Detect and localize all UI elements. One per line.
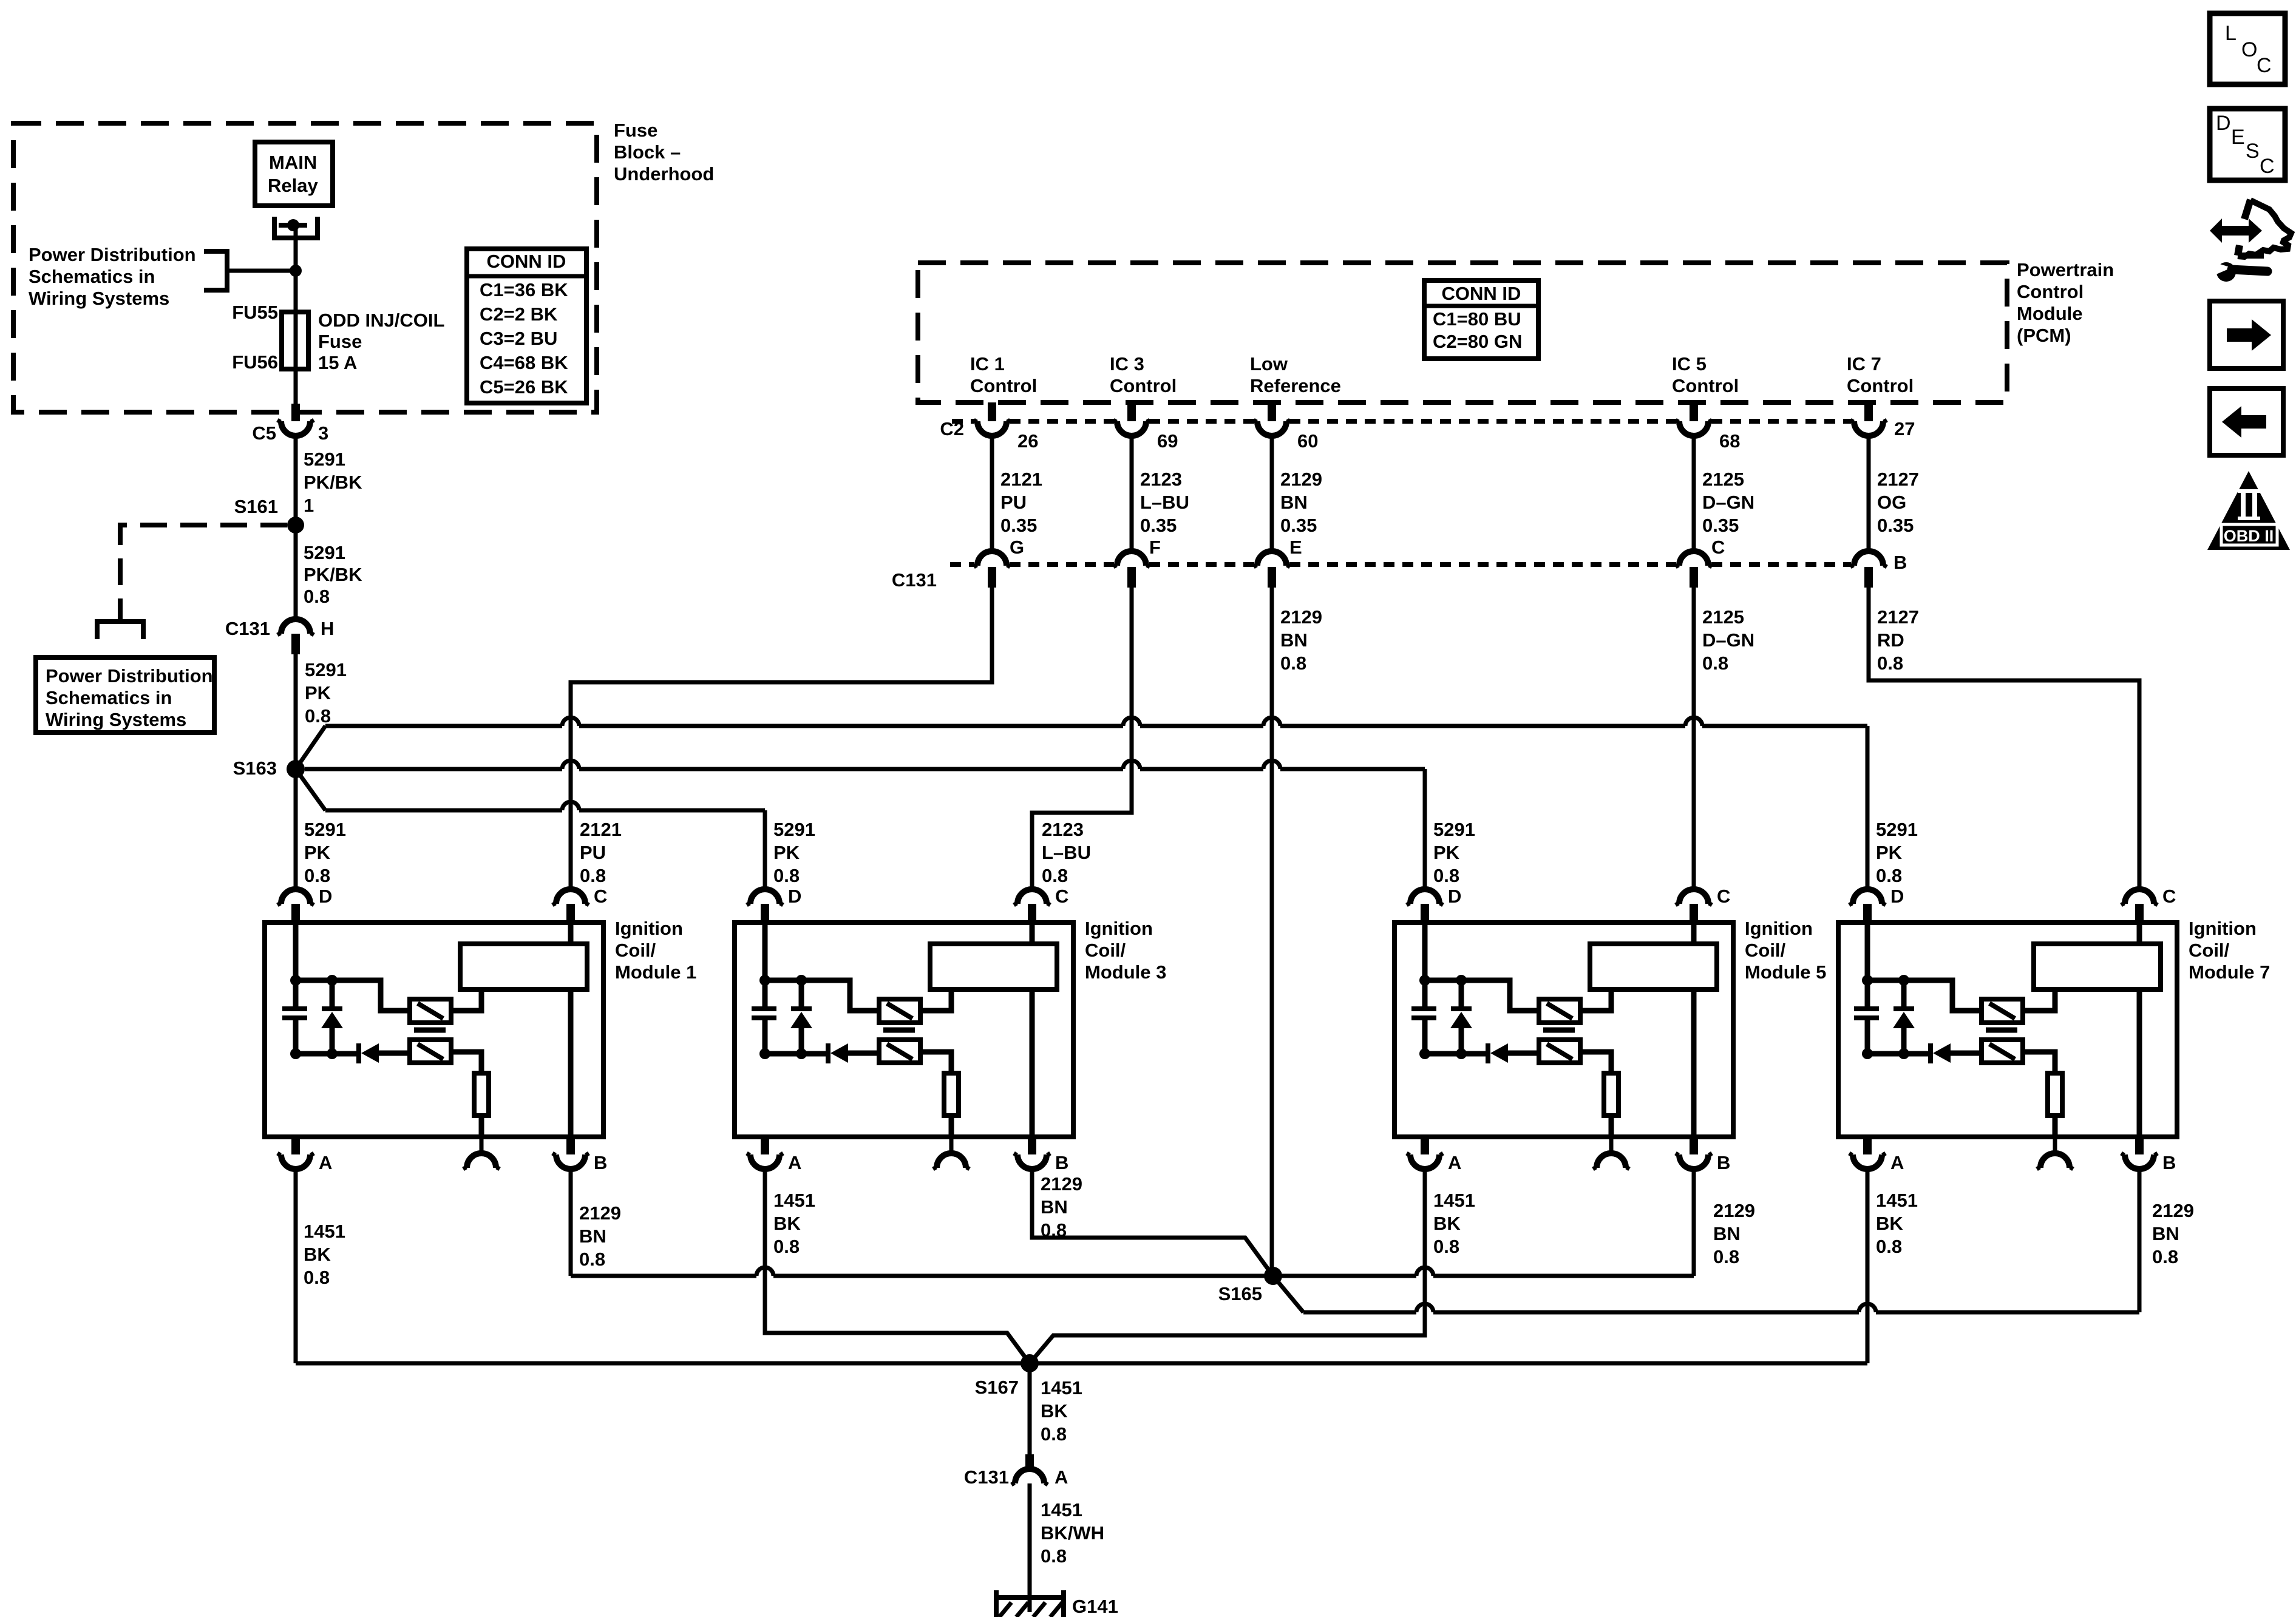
PCM pin stub 68 (1690, 402, 1698, 421)
splice S167 (1021, 1354, 1039, 1372)
module 3 pin D connector (750, 889, 779, 904)
svg-text:Control: Control (1672, 375, 1739, 396)
svg-text:0.35: 0.35 (1877, 515, 1914, 536)
svg-text:IC 3: IC 3 (1110, 353, 1144, 375)
wire 5291 PK 0.8 (294, 654, 298, 769)
svg-text:BK: BK (304, 1244, 331, 1265)
junction dot at power feed (290, 265, 302, 277)
svg-text:PK: PK (304, 842, 331, 863)
svg-text:BK: BK (1876, 1213, 1903, 1234)
connector C131 pin B (1854, 551, 1883, 566)
svg-text:5291: 5291 (305, 659, 347, 680)
CONN ID table (fuse block) (467, 249, 586, 403)
svg-text:D–GN: D–GN (1702, 492, 1754, 513)
svg-text:0.8: 0.8 (1702, 653, 1728, 674)
module 1 coil drive wire (451, 989, 481, 1011)
module 7 pin C internal wire (2137, 925, 2142, 944)
module 5 pin A connector (1421, 1134, 1429, 1154)
icon OBD II triangle (2207, 471, 2290, 550)
wire fan to module 7 D (5291 PK) (296, 726, 325, 769)
svg-text:FU55: FU55 (232, 302, 278, 323)
svg-text:C: C (1055, 886, 1068, 907)
svg-text:0.8: 0.8 (579, 1249, 605, 1270)
module 1 core bar (414, 1028, 446, 1033)
svg-text:C2: C2 (940, 418, 964, 439)
svg-text:Ignition: Ignition (615, 918, 683, 939)
PCM pin stub 27 (1864, 402, 1873, 421)
svg-text:Fuse: Fuse (614, 120, 657, 141)
svg-text:5291: 5291 (304, 542, 345, 563)
connector C2 pin 26 (977, 421, 1007, 436)
svg-text:A: A (1055, 1466, 1068, 1488)
svg-text:C: C (2260, 155, 2275, 178)
module 7 internal primary feed wire (1865, 923, 1870, 1009)
module 5 coil drive wire (1580, 989, 1611, 1011)
svg-text:5291: 5291 (1876, 819, 1918, 840)
module 3 sense wire to resistor (920, 1052, 951, 1073)
svg-text:Ignition: Ignition (2189, 918, 2257, 939)
ignition coil module 1 box (265, 923, 603, 1137)
svg-text:0.35: 0.35 (1000, 515, 1037, 536)
svg-text:68: 68 (1719, 430, 1740, 452)
svg-text:0.8: 0.8 (1280, 653, 1306, 674)
connector C2 pin 60 (1257, 421, 1286, 436)
svg-text:IC 5: IC 5 (1672, 353, 1707, 375)
module 7 capacitor (1854, 1006, 1879, 1011)
svg-text:MAIN: MAIN (269, 152, 317, 173)
svg-text:PK: PK (1876, 842, 1903, 863)
svg-text:S165: S165 (1218, 1283, 1262, 1304)
CONN ID table (PCM) (1424, 280, 1538, 359)
svg-text:BN: BN (579, 1225, 606, 1247)
module 1 pin C connector (556, 889, 585, 904)
module 1 driver box lower (410, 1040, 451, 1063)
module 5 ignition coil winding (1590, 944, 1717, 989)
svg-text:D: D (319, 886, 332, 907)
svg-text:0.8: 0.8 (2152, 1246, 2178, 1267)
svg-text:Relay: Relay (268, 175, 318, 196)
svg-text:Module 5: Module 5 (1745, 961, 1826, 983)
svg-text:2129: 2129 (579, 1202, 621, 1224)
module 7 sense wire to resistor (2023, 1052, 2055, 1073)
module 7 pin D connector (1853, 889, 1882, 904)
svg-text:1451: 1451 (1041, 1377, 1082, 1398)
module 5 zener diode (1459, 980, 1464, 1009)
svg-text:Power Distribution: Power Distribution (46, 665, 213, 686)
wire 2129 BN 0.8 S165 to module 5 B (1273, 1274, 1416, 1278)
module 3 pin B connector (1028, 1134, 1036, 1154)
wire 2125 D-GN 0.8 to module 5 pin C (1692, 588, 1696, 889)
svg-text:BN: BN (1713, 1223, 1741, 1244)
module 1 pin D connector (281, 889, 310, 904)
wire 1451 BK 0.8 module 1 A to S167 (294, 1169, 298, 1363)
module 3 ignition coil winding (930, 944, 1057, 989)
svg-text:Underhood: Underhood (614, 163, 714, 185)
wire 2129 BN 0.8 module 3 B to S165 (1032, 1169, 1273, 1276)
svg-text:0.8: 0.8 (1433, 865, 1459, 886)
module 7 pin C connector (2125, 889, 2154, 904)
svg-text:L: L (2225, 22, 2237, 45)
svg-text:0.8: 0.8 (1876, 865, 1902, 886)
svg-text:IC 7: IC 7 (1847, 353, 1881, 375)
svg-text:0.8: 0.8 (304, 586, 330, 607)
wire 2121 PU 0.8 to module 1 pin C (571, 588, 992, 889)
svg-text:2129: 2129 (2152, 1200, 2194, 1221)
svg-text:B: B (1717, 1152, 1730, 1173)
svg-text:0.8: 0.8 (1877, 653, 1903, 674)
ground G141 (996, 1590, 1064, 1598)
svg-text:E: E (1289, 537, 1302, 558)
svg-text:BN: BN (1280, 629, 1308, 651)
svg-text:5291: 5291 (773, 819, 815, 840)
svg-text:C: C (2162, 886, 2176, 907)
svg-text:C: C (1711, 537, 1725, 558)
wire 2127 OG 0.35 (1867, 436, 1871, 551)
module 5 pin D connector (1410, 889, 1439, 904)
svg-text:Wiring Systems: Wiring Systems (29, 288, 169, 309)
module 1 node dots (290, 975, 301, 986)
relay contact junction dot (287, 219, 299, 231)
svg-text:A: A (319, 1152, 332, 1173)
main ground bus to S167 (296, 1361, 1867, 1366)
module 3 capacitor (752, 1006, 776, 1011)
svg-text:0.8: 0.8 (1041, 1545, 1067, 1567)
PCM pin stub 26 (988, 402, 996, 421)
connector C2 pin 27 (1854, 421, 1883, 436)
svg-text:B: B (1894, 552, 1907, 573)
svg-text:C131: C131 (964, 1466, 1009, 1488)
wire 2129 BN 0.8 S165 to module 7 B (1273, 1276, 1303, 1312)
svg-text:PK: PK (305, 682, 331, 703)
module 1 capacitor (282, 1006, 307, 1011)
module 7 driver box upper (1982, 999, 2023, 1023)
svg-text:B: B (2162, 1152, 2176, 1173)
wire 2123 L-BU 0.8 to module 3 pin C (1032, 588, 1132, 889)
module 1 pin B connector (566, 1134, 575, 1154)
svg-text:2129: 2129 (1280, 469, 1322, 490)
svg-text:Module 1: Module 1 (615, 961, 696, 983)
svg-text:PU: PU (580, 842, 606, 863)
module 3 resistor (944, 1073, 959, 1116)
svg-text:2123: 2123 (1140, 469, 1182, 490)
connector C131 pin C (1679, 551, 1708, 566)
svg-text:CONN ID: CONN ID (1442, 283, 1521, 304)
svg-text:Coil/: Coil/ (615, 940, 656, 961)
svg-text:0.8: 0.8 (1041, 1423, 1067, 1445)
module 1 pin B internal wire (568, 989, 574, 1134)
svg-text:C3=2 BU: C3=2 BU (480, 328, 557, 349)
module 1 sense wire to resistor (451, 1052, 481, 1073)
svg-text:PU: PU (1000, 492, 1027, 513)
icon diagnostic hand tool (2210, 200, 2291, 282)
svg-text:1: 1 (304, 495, 314, 516)
svg-text:1451: 1451 (304, 1221, 345, 1242)
svg-text:Coil/: Coil/ (1085, 940, 1126, 961)
PCM pin stub 60 (1268, 402, 1276, 421)
module 1 feedback diode (296, 1051, 357, 1057)
module 3 pin C connector (1017, 889, 1047, 904)
module 1 internal primary feed wire (293, 923, 299, 1009)
module 1 driver box upper (410, 999, 451, 1023)
icon back arrow box (2210, 388, 2283, 455)
connector C2 pin 68 (1679, 421, 1708, 436)
svg-text:C: C (594, 886, 607, 907)
svg-text:A: A (1448, 1152, 1461, 1173)
svg-text:Control: Control (970, 375, 1037, 396)
svg-text:5291: 5291 (1433, 819, 1475, 840)
svg-text:D–GN: D–GN (1702, 629, 1754, 651)
wire 5291 PK/BK 0.8 (294, 525, 298, 619)
svg-text:1451: 1451 (1041, 1499, 1082, 1520)
svg-text:FU56: FU56 (232, 351, 278, 373)
module 5 pin B connector (1690, 1134, 1698, 1154)
connector C2 dotted line (952, 419, 974, 424)
svg-text:0.8: 0.8 (580, 865, 606, 886)
svg-text:0.8: 0.8 (773, 1236, 800, 1257)
svg-text:D: D (1448, 886, 1461, 907)
module 3 feedback diode (765, 1051, 826, 1057)
svg-text:0.8: 0.8 (1041, 1219, 1067, 1241)
svg-text:C4=68 BK: C4=68 BK (480, 352, 568, 373)
svg-text:PK: PK (773, 842, 800, 863)
svg-text:Coil/: Coil/ (2189, 940, 2230, 961)
svg-text:BK: BK (1041, 1400, 1068, 1422)
relay contact bar (279, 223, 307, 228)
svg-text:E: E (2231, 126, 2245, 149)
svg-text:2125: 2125 (1702, 606, 1744, 628)
svg-text:3: 3 (318, 422, 328, 444)
module 7 zener diode (1901, 980, 1907, 1009)
svg-text:2123: 2123 (1042, 819, 1084, 840)
svg-text:PK: PK (1433, 842, 1460, 863)
module 1 ignition coil winding (460, 944, 587, 989)
connector C2 pin 69 (1117, 421, 1146, 436)
module 3 pin A connector (761, 1134, 769, 1154)
svg-text:C: C (2257, 54, 2272, 77)
module 5 sense wire to resistor (1580, 1052, 1611, 1073)
wire 2125 D–GN 0.35 (1692, 436, 1696, 551)
svg-text:0.8: 0.8 (1713, 1246, 1739, 1267)
module 1 zener diode (330, 980, 335, 1009)
module 3 driver box lower (879, 1040, 920, 1063)
module 1 pin C internal wire (568, 925, 574, 944)
module 7 pin B connector (2135, 1134, 2144, 1154)
svg-text:F: F (1149, 537, 1161, 558)
module 1 spark output terminal (480, 1137, 484, 1153)
module 7 coil drive wire (2023, 989, 2055, 1011)
wire fan to module 3 D (5291 PK) (296, 769, 325, 810)
module 7 driver box lower (1982, 1040, 2023, 1063)
svg-text:69: 69 (1157, 430, 1178, 452)
svg-text:2127: 2127 (1877, 606, 1919, 628)
svg-text:S: S (2246, 140, 2260, 163)
svg-text:G141: G141 (1072, 1596, 1118, 1617)
bracket to power distribution (204, 251, 227, 290)
svg-text:Control: Control (2017, 281, 2084, 302)
svg-text:C: C (1717, 886, 1730, 907)
module 5 feedback diode (1425, 1051, 1486, 1057)
wire 1451 BK 0.8 module 7 A to S167 (1866, 1169, 1870, 1363)
svg-text:S167: S167 (975, 1377, 1019, 1398)
ignition coil module 3 box (735, 923, 1073, 1137)
wire 2127 RD 0.8 to module 7 pin C (1869, 588, 2139, 889)
module 1 pin A connector (291, 1134, 300, 1154)
svg-text:27: 27 (1894, 418, 1915, 439)
svg-text:0.35: 0.35 (1702, 515, 1739, 536)
svg-text:(PCM): (PCM) (2017, 325, 2071, 346)
svg-text:0.35: 0.35 (1280, 515, 1317, 536)
wire 1451 BK 0.8 module 3 A to S167 (765, 1169, 1030, 1363)
connector C5 pin 3 (291, 404, 300, 421)
relay K MAIN Relay box (255, 142, 333, 206)
svg-text:Ignition: Ignition (1085, 918, 1153, 939)
wire 2121 PU 0.35 (990, 436, 994, 551)
svg-text:0.8: 0.8 (773, 865, 800, 886)
svg-text:1451: 1451 (1876, 1190, 1918, 1211)
svg-text:B: B (594, 1152, 607, 1173)
connector C131 pin H (281, 619, 310, 634)
svg-text:C131: C131 (892, 569, 937, 591)
module 3 gate wire (765, 980, 879, 1011)
connector C131 dotted line (950, 562, 974, 567)
svg-text:2129: 2129 (1041, 1173, 1082, 1195)
svg-text:B: B (1055, 1152, 1068, 1173)
svg-text:OG: OG (1877, 492, 1906, 513)
svg-text:BK: BK (773, 1213, 801, 1234)
PCM dashed box (918, 263, 2007, 402)
wire 5291 PK/BK 1 (294, 436, 298, 526)
svg-text:C5=26 BK: C5=26 BK (480, 376, 568, 398)
svg-text:BN: BN (2152, 1223, 2179, 1244)
svg-text:O: O (2241, 38, 2257, 61)
svg-text:OBD II: OBD II (2224, 527, 2274, 545)
svg-text:Reference: Reference (1250, 375, 1341, 396)
svg-text:26: 26 (1017, 430, 1038, 452)
svg-text:D: D (788, 886, 801, 907)
svg-text:2125: 2125 (1702, 469, 1744, 490)
svg-text:Wiring Systems: Wiring Systems (46, 709, 186, 730)
label box Power Distribution Schematics (left) (36, 657, 214, 733)
icon forward arrow box (2210, 301, 2283, 368)
svg-text:BK: BK (1433, 1213, 1461, 1234)
svg-text:0.8: 0.8 (1042, 865, 1068, 886)
svg-text:0.8: 0.8 (1433, 1236, 1459, 1257)
module 3 pin C internal wire (1030, 925, 1035, 944)
module 5 node dots (1419, 975, 1430, 986)
svg-text:Coil/: Coil/ (1745, 940, 1786, 961)
relay contact cup (274, 217, 318, 238)
svg-text:D: D (2216, 112, 2231, 135)
svg-text:0.8: 0.8 (304, 1267, 330, 1288)
module 3 core bar (883, 1028, 915, 1033)
svg-text:5291: 5291 (304, 819, 346, 840)
svg-text:2121: 2121 (1000, 469, 1042, 490)
svg-text:Control: Control (1847, 375, 1914, 396)
module 5 driver box lower (1539, 1040, 1580, 1063)
module 5 pin B internal wire (1691, 989, 1697, 1134)
wire 2123 L–BU 0.35 (1130, 436, 1134, 551)
ignition coil module 5 box (1394, 923, 1733, 1137)
fuse FU55/FU56 ODD INJ/COIL 15A (282, 312, 308, 369)
module 3 pin B internal wire (1030, 989, 1035, 1134)
splice S161 (287, 517, 304, 534)
module 5 pin C internal wire (1691, 925, 1697, 944)
svg-text:G: G (1010, 537, 1024, 558)
svg-text:BK/WH: BK/WH (1041, 1522, 1104, 1544)
module 7 core bar (1986, 1028, 2017, 1033)
svg-text:0.8: 0.8 (1876, 1236, 1902, 1257)
module 3 driver box upper (879, 999, 920, 1023)
module 5 internal primary feed wire (1422, 923, 1428, 1009)
svg-text:ODD INJ/COIL: ODD INJ/COIL (318, 310, 444, 331)
module 5 resistor (1604, 1073, 1618, 1116)
svg-text:L–BU: L–BU (1140, 492, 1189, 513)
wire 1451 BK 0.8 module 5 A to S167 (1030, 1169, 1425, 1363)
wire to module 1 D (5291 PK) (294, 769, 298, 889)
wire relay to fuse (294, 226, 298, 421)
connector C131 pin E (1257, 551, 1286, 566)
svg-text:0.8: 0.8 (304, 865, 330, 886)
module 7 feedback diode (1867, 1051, 1929, 1057)
svg-text:D: D (1890, 886, 1904, 907)
connector C131 pin F (1117, 551, 1146, 566)
svg-text:Control: Control (1110, 375, 1177, 396)
wire 1451 BK/WH 0.8 to ground (1028, 1483, 1032, 1612)
svg-text:CONN ID: CONN ID (487, 251, 566, 272)
svg-text:Schematics in: Schematics in (46, 687, 172, 708)
module 7 pin B internal wire (2137, 989, 2142, 1134)
wire fan to module 5 D (5291 PK) (305, 767, 562, 771)
svg-text:C2=2 BK: C2=2 BK (480, 303, 558, 325)
svg-text:Power Distribution: Power Distribution (29, 244, 196, 265)
module 5 spark output terminal (1609, 1137, 1614, 1153)
dashed branch to power distribution (120, 525, 287, 619)
svg-text:2129: 2129 (1280, 606, 1322, 628)
svg-text:Schematics in: Schematics in (29, 266, 155, 287)
svg-text:0.8: 0.8 (305, 705, 331, 727)
module 3 node dots (759, 975, 770, 986)
svg-text:Module: Module (2017, 303, 2083, 324)
svg-text:L–BU: L–BU (1042, 842, 1091, 863)
icon LOC box (2210, 13, 2285, 84)
svg-text:PK/BK: PK/BK (304, 472, 362, 493)
svg-text:Low: Low (1250, 353, 1288, 375)
module 1 resistor (474, 1073, 489, 1116)
svg-text:15 A: 15 A (318, 352, 357, 373)
svg-text:2127: 2127 (1877, 469, 1919, 490)
svg-text:A: A (788, 1152, 801, 1173)
svg-text:BN: BN (1041, 1196, 1068, 1218)
svg-text:BN: BN (1280, 492, 1308, 513)
svg-text:1451: 1451 (1433, 1190, 1475, 1211)
svg-text:C1=80 BU: C1=80 BU (1433, 308, 1521, 330)
svg-text:2129: 2129 (1713, 1200, 1755, 1221)
module 3 spark output terminal (949, 1137, 954, 1153)
module 7 gate wire (1867, 980, 1982, 1011)
splice S165 (1264, 1267, 1282, 1285)
fuse block underhood dashed box (13, 123, 597, 412)
splice S163 (287, 760, 305, 778)
bracket (continues) (97, 622, 143, 639)
module 3 internal primary feed wire (763, 923, 768, 1009)
svg-text:Module 7: Module 7 (2189, 961, 2270, 983)
svg-text:C2=80 GN: C2=80 GN (1433, 331, 1522, 352)
module 5 driver box upper (1539, 999, 1580, 1023)
module 5 core bar (1543, 1028, 1575, 1033)
wire 2129 BN 0.8 module 1 B to S165 (569, 1169, 573, 1276)
svg-text:Block –: Block – (614, 141, 681, 163)
module 5 pin C connector (1679, 889, 1708, 904)
